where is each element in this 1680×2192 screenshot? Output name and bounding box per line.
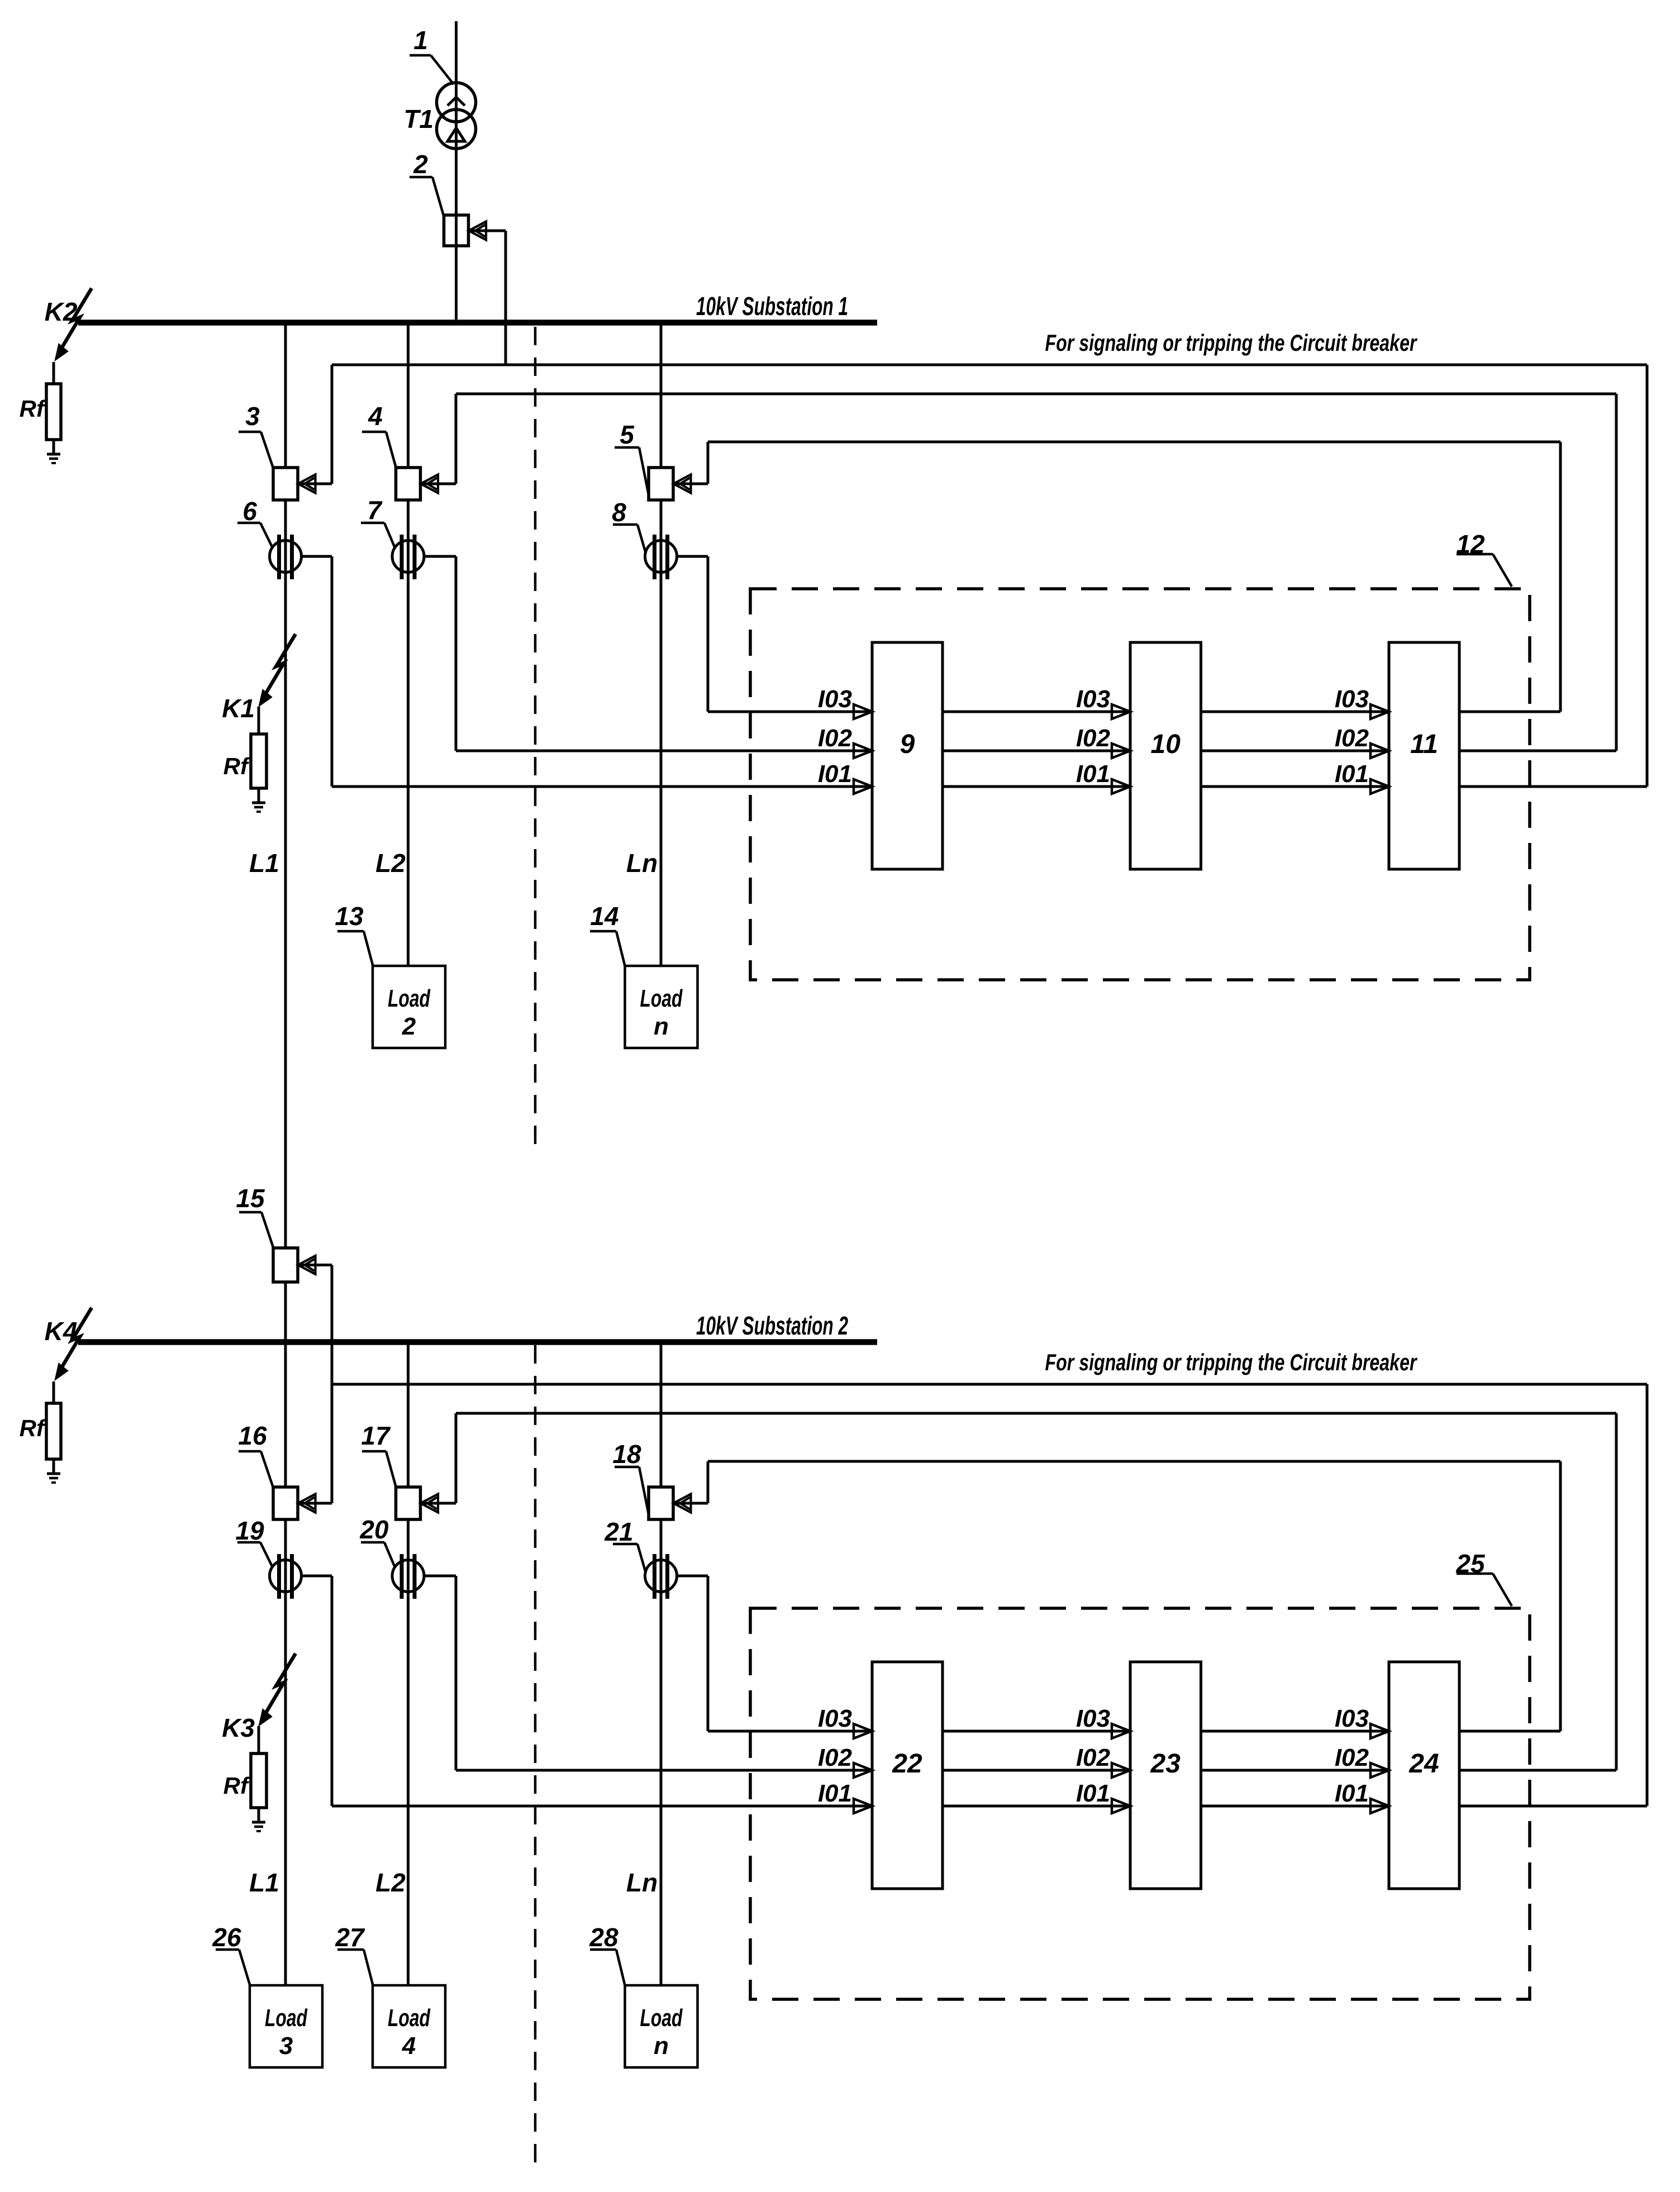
input arrow I02 into relay 24: [1370, 1763, 1389, 1778]
svg-text:n: n: [654, 1013, 669, 1040]
trip arrow into breaker 5: [674, 475, 691, 493]
circuit breaker 16 (L1): [273, 1487, 298, 1519]
wire I02 output of relay 24 to trip line 2: [1459, 1769, 1616, 1772]
wire CT 6 secondary to I01: [301, 555, 332, 558]
wire feeder L2 from breaker 4 to Load 2: [407, 500, 410, 966]
current transformer 19 (L1): [270, 1560, 302, 1592]
svg-text:I03: I03: [1335, 685, 1369, 713]
svg-text:16: 16: [238, 1421, 267, 1450]
svg-text:7: 7: [367, 495, 383, 525]
svg-text:4: 4: [368, 402, 383, 431]
input arrow I01 into relay 23: [1112, 1799, 1130, 1813]
svg-text:I01: I01: [1335, 760, 1369, 788]
input arrow I02 into relay 9: [854, 744, 872, 758]
transformer T1 secondary winding (delta): [437, 109, 476, 149]
wire Rf to ground (K1): [258, 788, 260, 803]
wire CT 19 secondary to I01: [301, 1575, 332, 1578]
relay unit 10: [1130, 642, 1201, 869]
input arrow I03 into relay 9: [854, 704, 872, 719]
resistor Rf (K4 fault resistance): [46, 1403, 61, 1459]
svg-text:13: 13: [335, 902, 364, 931]
svg-text:I02: I02: [1335, 1744, 1369, 1771]
svg-text:Load: Load: [388, 985, 431, 1012]
busbar K-bus-2 (10kV Substation 2): [78, 1339, 877, 1345]
svg-text:I01: I01: [1076, 1780, 1110, 1807]
wire I01 relay 23 to next: [1201, 1805, 1389, 1808]
wire I01 input to relay 9: [332, 785, 872, 788]
wire fault K2 to Rf: [53, 362, 55, 384]
wire trip to breaker 2: [469, 230, 506, 232]
wire feeder L1 from breaker 16 to Load 3: [284, 1519, 287, 1985]
resistor Rf (K3 fault resistance): [251, 1753, 266, 1808]
svg-text:I01: I01: [818, 760, 852, 788]
ground (K2): [47, 453, 60, 456]
wire feeder Ln from breaker 18 to Load n: [660, 1519, 663, 1985]
current transformer 7 (L2): [392, 541, 424, 573]
wire trip line 2 (to breaker on L2) y=705: [456, 393, 1616, 395]
load block Load 4: [373, 1985, 445, 2067]
svg-text:19: 19: [235, 1516, 264, 1545]
svg-text:9: 9: [900, 730, 915, 759]
wire trip line 1 (to breakers on L1) y=2478: [332, 1383, 1647, 1386]
current transformer 20 (L2): [392, 1560, 424, 1592]
circuit breaker 2 (transformer incomer): [444, 215, 469, 246]
input arrow I01 into relay 22: [854, 1799, 872, 1813]
svg-text:10kV Substation 2: 10kV Substation 2: [696, 1311, 848, 1340]
svg-text:I03: I03: [818, 1705, 852, 1732]
wire feeder L2 busbar to breaker: [407, 323, 410, 468]
wire I01 relay 22 to next: [943, 1805, 1130, 1808]
svg-text:K2: K2: [45, 297, 78, 326]
wire I03 relay 22 to next: [943, 1730, 1130, 1733]
svg-text:Rf: Rf: [223, 1772, 250, 1799]
wire trip line 3 (to breaker on Ln) y=2616: [708, 1460, 1560, 1463]
wire trip line 2 (to breaker on L2) y=2530: [456, 1412, 1616, 1415]
svg-text:3: 3: [245, 402, 260, 431]
input arrow I01 into relay 10: [1112, 779, 1130, 794]
svg-text:18: 18: [612, 1440, 641, 1469]
input arrow I02 into relay 10: [1112, 744, 1130, 758]
trip arrow into breaker 2: [469, 222, 486, 240]
input arrow I03 into relay 22: [854, 1724, 872, 1738]
input arrow I02 into relay 11: [1370, 744, 1389, 758]
wire feeder L2 from breaker 17 to Load 4: [407, 1519, 410, 1985]
wire I03 relay 10 to next: [1201, 711, 1389, 713]
svg-text:26: 26: [212, 1923, 241, 1952]
wire fault K1 to Rf: [258, 707, 260, 734]
svg-text:For signaling or tripping the: For signaling or tripping the Circuit br…: [1045, 1349, 1418, 1375]
load block Load 3: [250, 1985, 322, 2067]
wire fault K4 to Rf: [53, 1381, 55, 1403]
svg-text:14: 14: [590, 902, 618, 931]
input arrow I02 into relay 23: [1112, 1763, 1130, 1778]
svg-text:I03: I03: [818, 685, 852, 713]
wire trip drop to breaker 17: [455, 1413, 458, 1503]
input arrow I01 into relay 11: [1370, 779, 1389, 794]
wire I03 output of relay 11 to trip line 3: [1459, 711, 1560, 713]
svg-text:20: 20: [359, 1515, 389, 1544]
circuit breaker 18 (Ln): [649, 1487, 673, 1519]
svg-text:T1: T1: [403, 104, 434, 134]
svg-text:n: n: [654, 2032, 669, 2060]
svg-text:I01: I01: [1335, 1780, 1369, 1807]
wire I02 relay 9 to next: [943, 750, 1130, 752]
wire feeder Ln busbar to breaker: [660, 1342, 663, 1488]
svg-text:L1: L1: [249, 1868, 279, 1897]
wire I03 output of relay 24 to trip line 3: [1459, 1730, 1560, 1733]
wire feeder L1 busbar to breaker: [284, 1342, 287, 1488]
wire CT 8 secondary to I03: [676, 555, 708, 558]
wire I02 input to relay 9: [456, 750, 872, 752]
svg-text:6: 6: [242, 497, 257, 526]
wire trip line 3 (to breaker on Ln) y=791: [708, 441, 1560, 444]
wire I01 output of relay 24 to trip line 1: [1459, 1805, 1647, 1808]
wire feeder Ln from breaker 5 to Load n: [660, 500, 663, 966]
relay unit 11: [1389, 642, 1459, 869]
wire trip drop through busbar to breaker 16: [331, 1265, 334, 1504]
svg-text:I02: I02: [818, 1744, 853, 1771]
wire trip drop to breaker 18: [707, 1461, 710, 1503]
ground (K1): [252, 802, 265, 804]
circuit breaker 4 (L2): [396, 468, 421, 500]
input arrow I02 into relay 22: [854, 1763, 872, 1778]
svg-text:5: 5: [620, 420, 635, 449]
svg-text:2: 2: [413, 150, 428, 179]
resistor Rf (K2 fault resistance): [46, 384, 61, 440]
trip arrow into breaker 4: [421, 475, 438, 493]
svg-text:8: 8: [612, 498, 626, 527]
load block Load n (substation 1): [625, 966, 698, 1048]
svg-text:I03: I03: [1076, 1705, 1110, 1732]
svg-text:3: 3: [279, 2032, 293, 2060]
wire CT 20 secondary to I02: [423, 1575, 456, 1578]
device boundary 12 (dashed): [750, 589, 1530, 980]
svg-text:10kV Substation 1: 10kV Substation 1: [696, 292, 848, 321]
svg-text:2: 2: [402, 1013, 416, 1040]
circuit breaker 15 (tie on L1): [273, 1248, 298, 1282]
input arrow I01 into relay 9: [854, 779, 872, 794]
wire I01 output of relay 11 to trip line 1: [1459, 785, 1647, 788]
circuit breaker 5 (Ln): [649, 468, 673, 500]
fault K2 lightning arrow on busbar: [60, 288, 92, 350]
svg-text:K3: K3: [222, 1713, 255, 1742]
wire trip drop to breaker 5: [707, 442, 710, 484]
wire I03 relay 23 to next: [1201, 1730, 1389, 1733]
wire feeder L2 busbar to breaker: [407, 1342, 410, 1488]
wire fault K3 to Rf: [258, 1726, 260, 1753]
svg-text:I02: I02: [818, 725, 853, 752]
svg-text:Rf: Rf: [223, 753, 250, 779]
svg-text:I02: I02: [1076, 725, 1111, 752]
svg-text:Load: Load: [265, 2004, 308, 2032]
svg-text:28: 28: [589, 1923, 618, 1952]
wire I02 output of relay 11 to trip line 2: [1459, 750, 1616, 752]
wire I01 input to relay 22: [332, 1805, 872, 1808]
ground (K4): [47, 1473, 60, 1475]
circuit breaker 3 (L1): [273, 468, 298, 500]
transformer T1 primary winding (wye): [437, 83, 476, 122]
trip arrow into breaker 15: [298, 1256, 316, 1274]
ground (K3): [252, 1821, 265, 1824]
relay unit 23: [1130, 1662, 1201, 1889]
load block Load 2: [373, 966, 445, 1048]
trip arrow into breaker 16: [298, 1494, 316, 1513]
wire trip drop to breaker 3: [331, 365, 334, 484]
input arrow I03 into relay 23: [1112, 1724, 1130, 1738]
wire Rf to ground (K3): [258, 1808, 260, 1822]
load block Load n (substation 2): [625, 1985, 698, 2067]
svg-text:L2: L2: [375, 1868, 406, 1897]
wire incomer from supply through transformer to busbar 1: [455, 21, 458, 320]
svg-text:I03: I03: [1076, 685, 1110, 713]
wire Rf to ground (K2): [53, 440, 55, 454]
svg-text:I02: I02: [1335, 725, 1369, 752]
circuit breaker 17 (L2): [396, 1487, 421, 1519]
svg-text:11: 11: [1410, 730, 1438, 759]
svg-text:Ln: Ln: [626, 1868, 658, 1897]
wire I03 input to relay 22: [708, 1730, 872, 1733]
relay unit 24: [1389, 1662, 1459, 1889]
trip arrow into breaker 3: [298, 475, 316, 493]
input arrow I03 into relay 24: [1370, 1724, 1389, 1738]
svg-text:27: 27: [335, 1923, 365, 1952]
svg-text:K4: K4: [45, 1317, 78, 1346]
svg-text:4: 4: [402, 2032, 416, 2060]
svg-text:I01: I01: [818, 1780, 852, 1807]
resistor Rf (K1 fault resistance): [251, 734, 266, 788]
svg-text:I03: I03: [1335, 1705, 1369, 1732]
svg-text:17: 17: [361, 1421, 391, 1450]
svg-text:Rf: Rf: [20, 1415, 46, 1441]
busbar K-bus-1 (10kV Substation 1): [78, 320, 877, 326]
wire trip to breaker 15: [298, 1264, 332, 1266]
wire trip line 1 (to breakers on L1) y=653: [332, 364, 1647, 366]
svg-text:I01: I01: [1076, 760, 1110, 788]
input arrow I03 into relay 11: [1370, 704, 1389, 719]
svg-text:10: 10: [1151, 730, 1181, 759]
fault K1 lightning arrow on L1: [264, 634, 296, 696]
svg-text:L1: L1: [249, 849, 279, 878]
wire CT 7 secondary to I02: [423, 555, 456, 558]
current transformer 6 (L1): [270, 541, 302, 573]
fault K4 lightning arrow on busbar: [60, 1308, 92, 1370]
wire I02 input to relay 22: [456, 1769, 872, 1772]
relay unit 9: [872, 642, 943, 869]
trip arrow into breaker 17: [421, 1494, 438, 1513]
wire feeder L1 busbar to breaker: [284, 323, 287, 468]
svg-text:24: 24: [1408, 1749, 1439, 1779]
wire I02 relay 10 to next: [1201, 750, 1389, 752]
svg-text:23: 23: [1150, 1749, 1181, 1779]
wire Rf to ground (K4): [53, 1459, 55, 1474]
current transformer 8 (Ln): [645, 541, 677, 573]
svg-text:Load: Load: [640, 985, 683, 1012]
relay unit 22: [872, 1662, 943, 1889]
svg-text:I02: I02: [1076, 1744, 1111, 1771]
svg-text:Load: Load: [640, 2004, 683, 2032]
wire I01 relay 9 to next: [943, 785, 1130, 788]
wire I01 relay 10 to next: [1201, 785, 1389, 788]
svg-text:K1: K1: [222, 694, 255, 723]
trip arrow into breaker 18: [674, 1494, 691, 1513]
device boundary 25 (dashed): [750, 1608, 1530, 1999]
input arrow I03 into relay 10: [1112, 704, 1130, 719]
input arrow I01 into relay 24: [1370, 1799, 1389, 1813]
wire I03 relay 9 to next: [943, 711, 1130, 713]
svg-text:1: 1: [413, 26, 428, 55]
svg-text:Load: Load: [388, 2004, 431, 2032]
current transformer 21 (Ln): [645, 1560, 677, 1592]
wire I02 relay 22 to next: [943, 1769, 1130, 1772]
wire feeder L1 breaker 15 to busbar 2: [284, 1282, 287, 1341]
wire I02 relay 23 to next: [1201, 1769, 1389, 1772]
separator dashed line (more feeders, substation 2): [534, 1345, 537, 2173]
svg-text:Rf: Rf: [20, 395, 46, 422]
wire I03 input to relay 9: [708, 711, 872, 713]
wire feeder L1 from CT6 down to breaker 15: [284, 500, 287, 1248]
svg-text:Ln: Ln: [626, 849, 658, 878]
wire feeder Ln busbar to breaker: [660, 323, 663, 468]
svg-text:21: 21: [604, 1517, 633, 1546]
wire CT 21 secondary to I03: [676, 1575, 708, 1578]
svg-text:For signaling or tripping the: For signaling or tripping the Circuit br…: [1045, 330, 1418, 356]
separator dashed line (more feeders, substation 1): [534, 327, 537, 1156]
svg-text:L2: L2: [375, 849, 406, 878]
wire trip drop to breaker 4: [455, 394, 458, 484]
svg-text:22: 22: [892, 1749, 922, 1779]
fault K3 lightning arrow on L1: [264, 1653, 296, 1716]
svg-text:15: 15: [236, 1184, 265, 1213]
